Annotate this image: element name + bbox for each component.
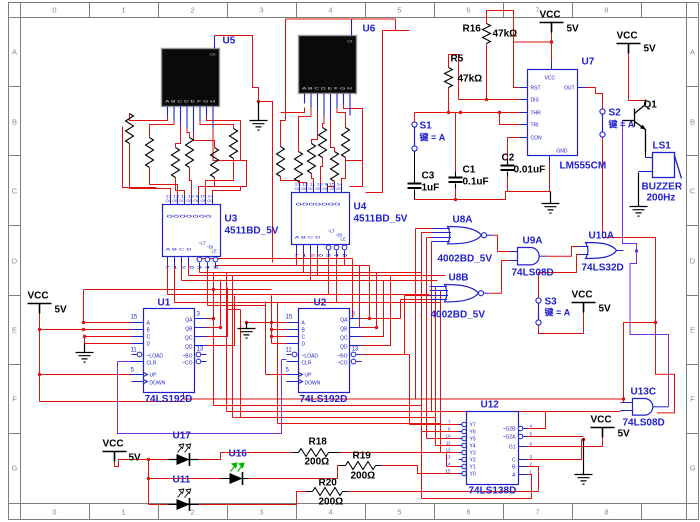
svg-text:S2: S2 bbox=[609, 108, 622, 119]
svg-text:C2: C2 bbox=[502, 153, 515, 164]
svg-text:4511BD_5V: 4511BD_5V bbox=[354, 214, 408, 225]
svg-text:QD: QD bbox=[340, 345, 348, 351]
svg-text:C: C bbox=[12, 187, 18, 196]
gate U9A AND 74LS08 bbox=[510, 248, 547, 265]
wire U6 right loop bbox=[350, 161, 363, 187]
svg-text:5: 5 bbox=[397, 6, 401, 15]
svg-text:B: B bbox=[690, 118, 695, 127]
resistor R9 bbox=[172, 148, 180, 178]
svg-text:CON: CON bbox=[531, 136, 543, 142]
wire U2 row UP bbox=[266, 302, 287, 375]
wire r3 bottom to U3 bbox=[176, 178, 185, 196]
wire q4 bottom to U4 bbox=[321, 158, 323, 184]
wire S3 to VCC bbox=[539, 313, 584, 334]
svg-text:GND: GND bbox=[556, 149, 568, 155]
svg-text:1: 1 bbox=[121, 508, 125, 517]
wire mesh to U2 QB bbox=[360, 266, 362, 328]
LED U11 bbox=[177, 489, 191, 511]
svg-text:OA OB OC OD OE OF OG: OA OB OC OD OE OF OG bbox=[166, 199, 215, 203]
wire U2 out risers bbox=[362, 266, 391, 346]
svg-text:6: 6 bbox=[466, 6, 470, 15]
switch S2 bbox=[600, 109, 605, 137]
svg-text:QD: QD bbox=[185, 345, 193, 351]
svg-text:~LOAD: ~LOAD bbox=[302, 354, 319, 360]
resistor R10 bbox=[186, 138, 194, 168]
svg-text:F: F bbox=[690, 395, 695, 404]
svg-text:5V: 5V bbox=[55, 305, 68, 316]
wire left VCC rail bbox=[40, 314, 184, 402]
wire U3 bubbles down bbox=[200, 266, 266, 306]
svg-text:200Hz: 200Hz bbox=[647, 193, 676, 204]
purple junction bbox=[635, 249, 638, 252]
svg-text:VCC: VCC bbox=[572, 290, 593, 301]
svg-text:74LS32D: 74LS32D bbox=[582, 263, 624, 274]
svg-text:U7: U7 bbox=[582, 57, 595, 68]
wire OUT to S2 bbox=[586, 88, 603, 109]
wire U6 pin E net bbox=[331, 120, 335, 152]
resistor R19 200 bbox=[346, 462, 376, 470]
wire U8A input 2 bbox=[422, 233, 459, 499]
wire U1 row D bbox=[85, 343, 132, 345]
svg-text:5V: 5V bbox=[644, 44, 657, 55]
wire riser Y1 bbox=[447, 453, 459, 467]
svg-text:13: 13 bbox=[197, 347, 204, 353]
resistor R5 47k bbox=[445, 68, 453, 88]
wire r4 bottom to U3 bbox=[190, 168, 192, 196]
VCC symbol S3 bbox=[572, 303, 596, 313]
wire r1 bottom to U3 bbox=[130, 144, 171, 196]
svg-text:R19: R19 bbox=[353, 451, 372, 462]
svg-text:0.01uF: 0.01uF bbox=[514, 165, 546, 176]
wire R20 out bbox=[348, 491, 539, 493]
wire nested row 4 bbox=[233, 276, 436, 418]
VCC symbol top (555) bbox=[540, 23, 564, 33]
resistor R18 200 bbox=[299, 449, 329, 457]
svg-text:~G2A: ~G2A bbox=[503, 435, 517, 441]
wire U8A input 1 bbox=[416, 229, 433, 400]
svg-text:F: F bbox=[12, 395, 17, 404]
wire nested row 5 bbox=[278, 303, 441, 424]
svg-text:U13C: U13C bbox=[631, 387, 657, 398]
wire R19 out bbox=[381, 466, 459, 474]
wire U5 CH to ground bbox=[215, 36, 273, 263]
resistor R20 200 bbox=[313, 488, 343, 496]
wire R19 leads bbox=[340, 465, 381, 467]
svg-text:8: 8 bbox=[604, 6, 608, 15]
svg-text:DOWN: DOWN bbox=[305, 381, 321, 387]
wire LED U17 line bbox=[169, 459, 199, 461]
capacitor C2 0.01uF bbox=[501, 160, 515, 177]
svg-text:~LT: ~LT bbox=[328, 229, 336, 234]
wire RST bbox=[514, 43, 520, 88]
wire U2 BO loop bbox=[362, 355, 459, 425]
svg-text:G: G bbox=[12, 464, 18, 473]
svg-text:5V: 5V bbox=[599, 304, 612, 315]
IC U7 LM555CM bbox=[520, 62, 586, 164]
wire mesh h6 bbox=[168, 294, 430, 296]
svg-text:QB: QB bbox=[185, 327, 193, 333]
wire U8A input 4 bbox=[432, 242, 433, 412]
svg-text:C: C bbox=[147, 335, 151, 341]
svg-text:Y5: Y5 bbox=[470, 437, 476, 443]
wire R18 leads bbox=[293, 452, 341, 454]
svg-text:Y2: Y2 bbox=[470, 458, 476, 464]
wire purple CLR link U1-U2 bbox=[118, 360, 287, 434]
wire U8B input 2 bbox=[430, 291, 441, 453]
wire R5 bottom to THR row bbox=[415, 88, 520, 113]
seven-segment display U6 bbox=[299, 20, 357, 120]
svg-text:74LS192D: 74LS192D bbox=[145, 394, 193, 405]
wire U5 pin H net bbox=[213, 129, 247, 187]
LED U17 bbox=[169, 444, 199, 466]
svg-text:D: D bbox=[302, 342, 306, 348]
svg-text:LM555CM: LM555CM bbox=[560, 161, 607, 172]
ground G5 left bbox=[76, 344, 94, 363]
IC U3 4511BD_5V bbox=[163, 195, 221, 269]
wire U8B out to U9A bbox=[490, 261, 510, 294]
svg-text:RST: RST bbox=[531, 86, 541, 92]
svg-text:U3: U3 bbox=[225, 214, 238, 225]
wire TRI link bbox=[500, 113, 520, 125]
gate U8B 4002 NOR bbox=[430, 284, 490, 301]
wire q1 bottom to U4 bbox=[281, 177, 300, 184]
svg-text:~LT: ~LT bbox=[199, 241, 207, 246]
svg-text:~CO: ~CO bbox=[182, 361, 193, 367]
wire q6 bottom to U4 bbox=[342, 158, 346, 184]
svg-text:U5: U5 bbox=[223, 36, 236, 47]
svg-text:3: 3 bbox=[259, 508, 263, 517]
wire S1 stem bbox=[414, 113, 416, 122]
svg-text:U8A: U8A bbox=[453, 215, 473, 226]
svg-text:UP: UP bbox=[305, 373, 313, 379]
svg-text:VCC: VCC bbox=[591, 415, 612, 426]
svg-text:~BO: ~BO bbox=[337, 354, 347, 360]
svg-text:U12: U12 bbox=[481, 400, 500, 411]
wire LED rail VCC bbox=[115, 453, 293, 505]
svg-text:13: 13 bbox=[445, 455, 451, 460]
svg-text:Y6: Y6 bbox=[470, 430, 476, 436]
wire nested row 2 bbox=[214, 290, 422, 406]
wire LED row3 bbox=[149, 492, 307, 505]
wire U2 left rows bbox=[272, 296, 287, 344]
svg-text:200Ω: 200Ω bbox=[319, 497, 344, 508]
svg-text:2: 2 bbox=[190, 508, 194, 517]
wire mesh h4 bbox=[189, 275, 446, 277]
wire U6 pin D net bbox=[323, 116, 325, 128]
svg-text:G1: G1 bbox=[509, 445, 516, 451]
resistor R6 bbox=[331, 152, 339, 182]
wire nested row 3 bbox=[227, 273, 621, 412]
wire U12 pin A bbox=[422, 475, 532, 499]
wire U5 pin C net bbox=[176, 125, 181, 148]
svg-text:7 1 2 6: 7 1 2 6 bbox=[294, 254, 324, 258]
svg-text:U17: U17 bbox=[173, 431, 192, 442]
svg-text:U6: U6 bbox=[363, 24, 376, 35]
wire R16 top loop to VCC bbox=[487, 11, 552, 62]
svg-text:VCC: VCC bbox=[28, 291, 49, 302]
wire VCC to Q1 collector bbox=[629, 54, 646, 101]
switch S1 bbox=[412, 122, 417, 151]
svg-text:4511BD_5V: 4511BD_5V bbox=[225, 226, 279, 237]
VCC symbol left (counters) bbox=[28, 304, 52, 314]
svg-text:UP: UP bbox=[150, 373, 158, 379]
svg-text:5V: 5V bbox=[618, 429, 631, 440]
svg-text:13: 13 bbox=[352, 347, 359, 353]
svg-text:DIS: DIS bbox=[531, 98, 540, 104]
resistor R1 (U6 group) bbox=[277, 147, 285, 177]
VCC symbol U12 bbox=[591, 428, 615, 438]
wire U8B input 1 bbox=[430, 287, 459, 446]
svg-text:OUT: OUT bbox=[564, 86, 575, 92]
wire r6 bottom to U3 bbox=[206, 159, 234, 196]
svg-text:74LS08D: 74LS08D bbox=[623, 418, 665, 429]
IC U1 74LS192D counter bbox=[131, 309, 207, 393]
svg-text:13 12 11 10 9 15 14: 13 12 11 10 9 15 14 bbox=[295, 183, 343, 187]
svg-text:A: A bbox=[12, 48, 17, 57]
wire U12 G1 to VCC bbox=[528, 438, 603, 447]
svg-text:ȯȯȯȯȯȯȯ: ȯȯȯȯȯȯȯ bbox=[296, 202, 342, 207]
wire U6 top loop bbox=[286, 19, 410, 193]
wire U5 pin F net bbox=[200, 121, 234, 129]
wire U6 pin B net bbox=[299, 108, 312, 152]
svg-text:D: D bbox=[690, 257, 696, 266]
wire mesh h3 bbox=[200, 272, 422, 274]
wire LED row2 bbox=[149, 466, 340, 479]
wire U1 row UP bbox=[40, 374, 132, 376]
svg-text:74LS192D: 74LS192D bbox=[300, 394, 348, 405]
svg-text:C1: C1 bbox=[463, 165, 476, 176]
svg-text:LS1: LS1 bbox=[653, 141, 672, 152]
svg-text:0.1uF: 0.1uF bbox=[463, 177, 489, 188]
wire CON to C2 bbox=[508, 138, 551, 192]
ground G6 U12 bbox=[575, 439, 593, 485]
svg-text:QA: QA bbox=[185, 318, 193, 324]
svg-text:5V: 5V bbox=[129, 453, 142, 464]
svg-text:74LS08D: 74LS08D bbox=[512, 268, 554, 279]
wire LED U16 line bbox=[221, 478, 249, 480]
svg-text:G: G bbox=[690, 464, 696, 473]
seven-segment display U5 bbox=[162, 36, 220, 133]
svg-text:47kΩ: 47kΩ bbox=[493, 29, 518, 40]
svg-text:A B C D E F G H: A B C D E F G H bbox=[165, 100, 216, 104]
wire G4 to U2 row A bbox=[247, 322, 272, 324]
svg-text:U1: U1 bbox=[158, 298, 171, 309]
resistor R8 bbox=[146, 138, 154, 168]
transistor Q1 bbox=[623, 100, 647, 153]
svg-text:Y3: Y3 bbox=[470, 451, 476, 457]
resistor R13 bbox=[342, 128, 350, 158]
svg-text:15: 15 bbox=[131, 315, 138, 321]
svg-text:R5: R5 bbox=[451, 54, 464, 65]
wire mesh h1 bbox=[197, 258, 353, 260]
svg-text:11: 11 bbox=[131, 348, 138, 354]
switch S3 bbox=[536, 298, 541, 325]
svg-text:13 12 11 10 9 15 14: 13 12 11 10 9 15 14 bbox=[166, 195, 214, 199]
wire C1 links bbox=[455, 113, 457, 200]
svg-text:Y0: Y0 bbox=[470, 472, 476, 478]
svg-text:74LS138D: 74LS138D bbox=[469, 486, 517, 497]
svg-text:~LOAD: ~LOAD bbox=[147, 354, 164, 360]
resistor R4 bbox=[319, 128, 327, 158]
svg-text:BUZZER: BUZZER bbox=[642, 182, 683, 193]
wire r5 bottom to U3 bbox=[199, 178, 215, 196]
wire U6 pin C net bbox=[312, 112, 318, 144]
svg-text:A B C D: A B C D bbox=[166, 247, 192, 252]
gate U8A 4002 NOR bbox=[433, 227, 493, 244]
wire LED U11 line bbox=[169, 504, 199, 506]
wire U5 pin B net bbox=[150, 121, 175, 138]
svg-text:VCC: VCC bbox=[540, 10, 561, 21]
svg-text:CA: CA bbox=[347, 39, 353, 44]
svg-text:15: 15 bbox=[286, 315, 293, 321]
U12 pin numbers bbox=[445, 420, 532, 475]
svg-text:C: C bbox=[512, 458, 516, 464]
wire S1 to C3 bbox=[414, 152, 416, 200]
svg-text:VCC: VCC bbox=[545, 76, 556, 82]
wire U5 pin D net bbox=[187, 129, 190, 138]
svg-text:~CO: ~CO bbox=[337, 361, 348, 367]
wire q3 bottom to U4 bbox=[312, 174, 314, 184]
wire U9A out to U10A bbox=[547, 247, 579, 257]
resistor R11 bbox=[211, 148, 219, 178]
svg-text:E: E bbox=[690, 326, 695, 335]
svg-text:CLR: CLR bbox=[147, 361, 157, 367]
svg-text:8: 8 bbox=[604, 508, 608, 517]
svg-text:~BO: ~BO bbox=[182, 354, 192, 360]
svg-text:4002BD_5V: 4002BD_5V bbox=[431, 310, 486, 321]
svg-text:3 4 5: 3 4 5 bbox=[197, 266, 219, 270]
wire U1 row B bbox=[40, 329, 132, 331]
svg-text:B: B bbox=[12, 118, 17, 127]
svg-text:U2: U2 bbox=[314, 298, 327, 309]
wire mesh to U2 QA bbox=[353, 259, 362, 319]
svg-text:R20: R20 bbox=[319, 478, 338, 489]
VCC symbol right (Q1) bbox=[617, 44, 641, 54]
wire Q1 emitter to buzzer bbox=[645, 153, 647, 158]
wire R18 out bbox=[341, 452, 459, 454]
svg-text:D: D bbox=[12, 257, 18, 266]
svg-text:4: 4 bbox=[328, 508, 332, 517]
wire U3 outputs down bbox=[168, 266, 189, 303]
svg-text:7 1 2 6: 7 1 2 6 bbox=[165, 266, 195, 270]
svg-text:11: 11 bbox=[446, 441, 451, 446]
wire mesh h7 bbox=[175, 302, 441, 304]
wire S3 to U10A bbox=[539, 255, 579, 298]
svg-text:LE: LE bbox=[341, 237, 346, 242]
svg-text:键 = A: 键 = A bbox=[419, 132, 446, 143]
svg-text:S3: S3 bbox=[545, 297, 558, 308]
gate U10A OR 74LS32 bbox=[579, 243, 624, 259]
wire bottom rail 555 bbox=[415, 192, 508, 200]
svg-text:4: 4 bbox=[328, 6, 332, 15]
svg-text:1uF: 1uF bbox=[422, 183, 440, 194]
wire U12 pin B bbox=[528, 467, 539, 492]
svg-text:R18: R18 bbox=[309, 437, 328, 448]
wire U5 pin E net bbox=[194, 133, 215, 148]
wire U3 pin7 bbox=[213, 187, 241, 196]
svg-text:Y1: Y1 bbox=[470, 465, 476, 471]
svg-text:U16: U16 bbox=[229, 449, 248, 460]
wire q2 bottom to U4 bbox=[299, 182, 307, 184]
resistor R7 (U5 group) bbox=[126, 114, 134, 144]
svg-text:4002BD_5V: 4002BD_5V bbox=[438, 254, 493, 265]
svg-text:0: 0 bbox=[52, 6, 56, 15]
ground G3 buzzer bbox=[630, 173, 648, 217]
wire U1 QA-QD to mesh bbox=[207, 273, 235, 346]
wire U8B input 3 bbox=[362, 296, 430, 355]
wire r2 bottom to U3 bbox=[150, 168, 178, 196]
svg-text:S1: S1 bbox=[420, 121, 433, 132]
svg-text:U4: U4 bbox=[354, 202, 367, 213]
wire U12 pin C bbox=[528, 440, 584, 460]
wire U4 inputs down bbox=[297, 254, 318, 281]
wire U4 bubbles down bbox=[329, 257, 345, 303]
buzzer LS1 bbox=[639, 153, 682, 179]
resistor R3 bbox=[308, 144, 316, 174]
wire U6 left rail bbox=[281, 121, 286, 147]
ground G1 displays bbox=[250, 102, 268, 131]
svg-text:U11: U11 bbox=[173, 475, 191, 486]
svg-text:Y4: Y4 bbox=[470, 444, 476, 450]
svg-text:ȯȯȯȯȯȯȯ: ȯȯȯȯȯȯȯ bbox=[167, 214, 213, 219]
svg-text:QC: QC bbox=[340, 336, 348, 342]
svg-text:200Ω: 200Ω bbox=[351, 471, 376, 482]
svg-text:C: C bbox=[690, 187, 696, 196]
svg-text:U8B: U8B bbox=[449, 273, 469, 284]
svg-text:10: 10 bbox=[445, 434, 451, 439]
wire U8A out to U9A bbox=[493, 235, 510, 251]
svg-text:C: C bbox=[302, 335, 306, 341]
svg-text:47kΩ: 47kΩ bbox=[458, 74, 483, 85]
svg-text:3 4 5: 3 4 5 bbox=[326, 254, 348, 258]
wire U1 row A bbox=[84, 290, 272, 323]
svg-text:A B C D E F G H: A B C D E F G H bbox=[302, 87, 353, 91]
wire q5 bottom to U4 bbox=[328, 182, 335, 193]
svg-text:7: 7 bbox=[535, 508, 539, 517]
svg-text:1: 1 bbox=[121, 6, 125, 15]
svg-text:D: D bbox=[147, 342, 151, 348]
svg-text:Q1: Q1 bbox=[644, 100, 658, 111]
svg-text:VCC: VCC bbox=[103, 439, 124, 450]
VCC symbol LEDs bbox=[103, 452, 127, 462]
wire U12 G2B to U13C in2 bbox=[528, 412, 546, 429]
svg-text:12: 12 bbox=[445, 448, 451, 453]
ground G2 555 bbox=[542, 192, 560, 214]
wire R16 bottom to DIS bbox=[459, 44, 520, 100]
svg-text:6: 6 bbox=[466, 508, 470, 517]
svg-text:200Ω: 200Ω bbox=[305, 457, 330, 468]
svg-text:U10A: U10A bbox=[589, 231, 615, 242]
wire U6 pin F net bbox=[337, 108, 346, 128]
svg-text:Y7: Y7 bbox=[470, 423, 476, 429]
wire U5 pin A net bbox=[130, 114, 168, 121]
wire mesh h2 bbox=[216, 265, 370, 267]
wire U8A input 3 bbox=[427, 238, 459, 439]
svg-text:11: 11 bbox=[286, 348, 293, 354]
wire U5 pin G net bbox=[207, 117, 241, 161]
wire R20 leads bbox=[307, 491, 348, 493]
capacitor C1 0.1uF bbox=[449, 172, 463, 189]
svg-text:~G2B: ~G2B bbox=[503, 427, 517, 433]
resistor R2 bbox=[295, 152, 303, 182]
svg-text:LE: LE bbox=[212, 249, 217, 254]
svg-text:DOWN: DOWN bbox=[150, 381, 166, 387]
wire mesh h5 bbox=[182, 280, 438, 282]
svg-text:E: E bbox=[12, 326, 17, 335]
svg-text:5: 5 bbox=[397, 508, 401, 517]
svg-text:5V: 5V bbox=[567, 24, 580, 35]
LED U16 green on bbox=[230, 463, 245, 485]
